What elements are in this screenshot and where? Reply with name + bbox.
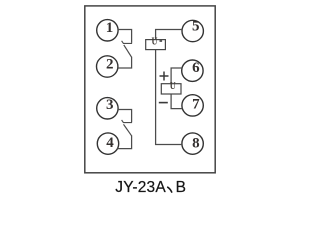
wire coil U1 to terminal 5: [156, 30, 183, 41]
polarity minus mark: [159, 102, 168, 104]
svg-text:3: 3: [106, 97, 114, 113]
contact K2 fixed hook: [122, 120, 133, 123]
coil box U2: [161, 84, 181, 94]
terminal 2: [97, 56, 118, 77]
terminal 3: [97, 97, 118, 119]
svg-text:5: 5: [192, 18, 200, 34]
terminal 6: [182, 60, 203, 81]
svg-text:U: U: [170, 80, 176, 92]
terminal 1: [97, 20, 118, 41]
contact K1 fixed hook: [122, 41, 133, 44]
svg-text:U: U: [152, 36, 158, 48]
wire contact K2 to terminal 4: [117, 135, 131, 148]
svg-text:2: 2: [106, 57, 114, 73]
coil box U1: [146, 40, 166, 50]
svg-text:8: 8: [192, 136, 200, 152]
wire coil U2 to terminal 7: [171, 94, 182, 109]
svg-text:4: 4: [106, 135, 114, 151]
svg-text:7: 7: [192, 96, 200, 112]
relay case outline: [85, 6, 215, 173]
caption JY-23A、B: [115, 179, 186, 196]
terminal 8: [182, 133, 203, 154]
contact K2 moving blade: [124, 124, 132, 136]
svg-text:6: 6: [192, 60, 200, 76]
wire coil U2 to terminal 6: [171, 68, 182, 84]
contact K1 moving blade: [124, 45, 132, 57]
terminal 7: [182, 95, 203, 116]
svg-text:1: 1: [106, 20, 114, 36]
terminal 4: [97, 133, 118, 154]
terminal 5: [182, 18, 203, 41]
svg-text:JY-23A: JY-23A: [115, 179, 166, 196]
wire terminal1 to contact K1 fixed: [118, 30, 132, 43]
svg-text:B: B: [176, 179, 186, 196]
wire coil U1 to terminal 8: [156, 49, 183, 144]
wire terminal3 to contact K2 fixed: [118, 110, 132, 123]
wire contact K1 to terminal 2: [118, 57, 132, 68]
coil U1 label small mark: [160, 40, 163, 42]
polarity plus mark: [160, 72, 169, 81]
